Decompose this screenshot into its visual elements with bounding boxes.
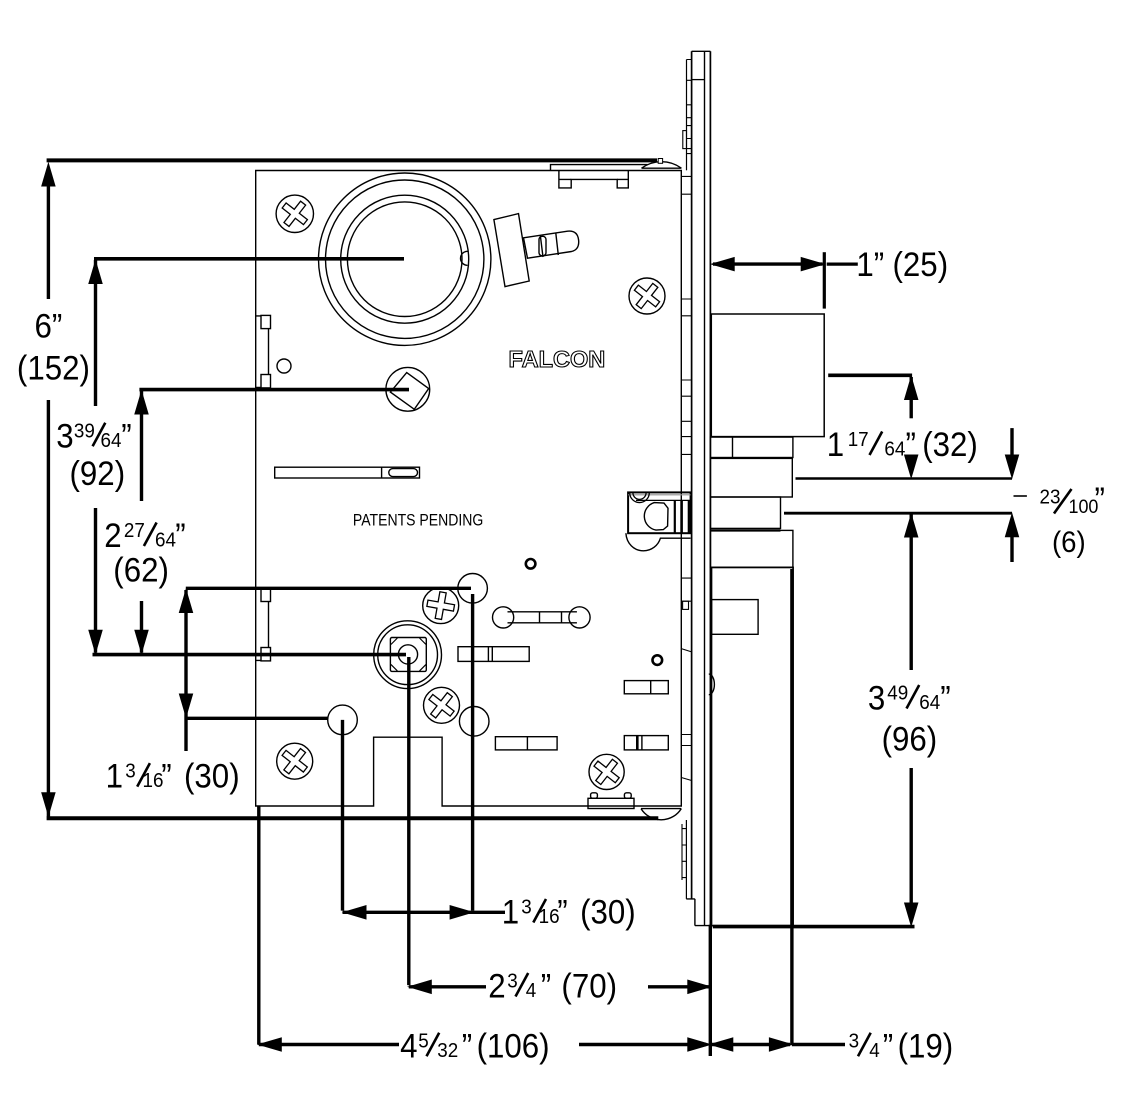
- svg-text:6”: 6”: [35, 306, 63, 345]
- svg-text:”: ”: [175, 516, 185, 555]
- svg-text:(62): (62): [113, 550, 169, 589]
- svg-text:64: 64: [101, 429, 122, 452]
- svg-text:1”: 1”: [856, 245, 884, 284]
- svg-text:64: 64: [155, 529, 176, 552]
- svg-text:(92): (92): [70, 454, 126, 493]
- svg-text:3: 3: [125, 760, 136, 783]
- svg-text:4: 4: [526, 979, 537, 1002]
- svg-text:17: 17: [848, 428, 869, 451]
- svg-text:3: 3: [849, 1030, 860, 1053]
- svg-text:2: 2: [104, 516, 121, 555]
- svg-text:”: ”: [557, 892, 567, 931]
- svg-text:FALCON: FALCON: [509, 346, 606, 373]
- svg-text:”: ”: [883, 1026, 893, 1065]
- svg-text:(96): (96): [882, 719, 938, 758]
- svg-text:32: 32: [437, 1039, 458, 1062]
- svg-text:PATENTS PENDING: PATENTS PENDING: [353, 512, 483, 530]
- svg-text:(70): (70): [561, 966, 617, 1005]
- svg-text:(152): (152): [17, 348, 90, 387]
- svg-text:1: 1: [106, 756, 123, 795]
- svg-text:(6): (6): [1052, 526, 1086, 559]
- svg-text:1: 1: [827, 425, 844, 464]
- svg-text:2: 2: [488, 966, 505, 1005]
- svg-text:”: ”: [541, 966, 551, 1005]
- svg-text:64: 64: [919, 691, 940, 714]
- svg-text:(25): (25): [893, 245, 949, 284]
- svg-text:”: ”: [1095, 480, 1105, 519]
- svg-text:3: 3: [507, 970, 518, 993]
- svg-text:(106): (106): [477, 1026, 550, 1065]
- svg-text:”: ”: [940, 678, 950, 717]
- svg-text:3: 3: [56, 416, 73, 455]
- svg-text:(30): (30): [580, 892, 636, 931]
- svg-text:”: ”: [161, 756, 171, 795]
- svg-text:5: 5: [418, 1030, 429, 1053]
- svg-text:(19): (19): [898, 1026, 954, 1065]
- svg-text:1: 1: [502, 892, 519, 931]
- svg-text:”: ”: [121, 416, 131, 455]
- svg-text:49: 49: [887, 682, 908, 705]
- svg-text:4: 4: [869, 1039, 880, 1062]
- svg-text:27: 27: [124, 519, 145, 542]
- svg-text:(30): (30): [184, 756, 240, 795]
- svg-text:”: ”: [906, 425, 916, 464]
- svg-text:23: 23: [1040, 486, 1061, 509]
- svg-text:4: 4: [400, 1026, 417, 1065]
- svg-text:3: 3: [521, 896, 532, 919]
- svg-text:64: 64: [884, 438, 905, 461]
- svg-text:”: ”: [462, 1026, 472, 1065]
- svg-text:39: 39: [74, 420, 95, 443]
- svg-text:3: 3: [868, 678, 885, 717]
- svg-text:(32): (32): [922, 425, 978, 464]
